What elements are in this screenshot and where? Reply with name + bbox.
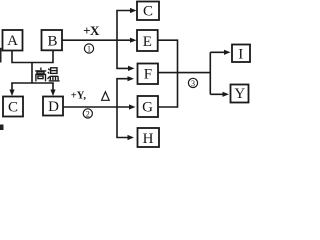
svg-text:C: C [143, 4, 153, 20]
svg-text:H: H [143, 131, 154, 147]
svg-text:1: 1 [87, 44, 91, 53]
svg-text:A: A [7, 33, 18, 49]
svg-text:C: C [8, 100, 18, 116]
svg-text:+X: +X [83, 23, 100, 38]
svg-text:G: G [142, 100, 153, 116]
svg-text:Y: Y [234, 86, 245, 102]
svg-text:3: 3 [191, 79, 195, 88]
svg-text:D: D [48, 99, 59, 115]
svg-text:E: E [143, 34, 152, 50]
svg-text:B: B [47, 34, 57, 50]
svg-text:2: 2 [86, 109, 90, 118]
svg-text:+Y,: +Y, [71, 91, 87, 102]
svg-text:F: F [144, 67, 152, 83]
svg-text:I: I [238, 46, 243, 62]
